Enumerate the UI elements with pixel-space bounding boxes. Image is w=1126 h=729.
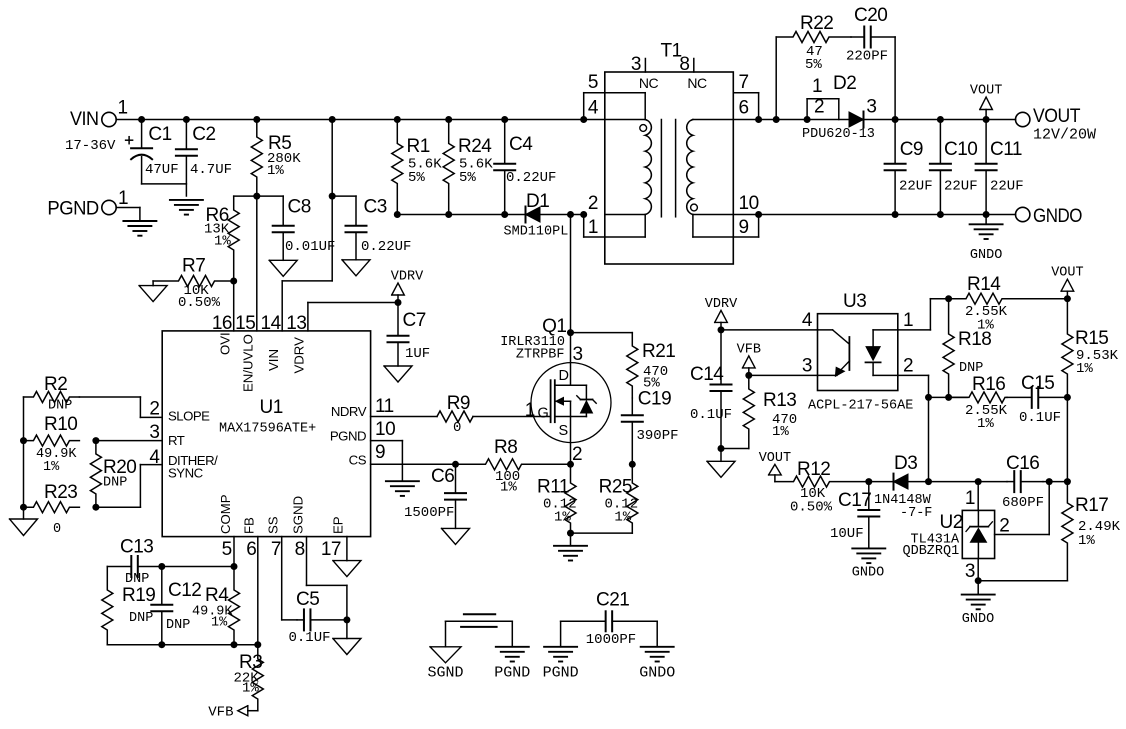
svg-text:1%: 1% — [1078, 533, 1095, 549]
wire pin9 CS — [371, 442, 485, 464]
junction VDRV C14 — [718, 326, 725, 333]
junction rail C4 — [501, 116, 508, 123]
junction R14 left — [945, 295, 952, 302]
wire pin16 OVI riser — [233, 281, 235, 331]
resistor R20 DNP — [90, 441, 136, 508]
svg-text:3: 3 — [573, 344, 583, 365]
svg-text:1%: 1% — [1076, 361, 1093, 377]
svg-text:4: 4 — [802, 310, 813, 331]
svg-text:R25: R25 — [599, 477, 632, 498]
svg-text:2: 2 — [999, 516, 1009, 537]
svg-text:1000PF: 1000PF — [586, 632, 636, 648]
svg-text:C2: C2 — [192, 124, 215, 145]
wire U2 pin2 route — [995, 482, 1050, 537]
transistor Q1 IRLR3110ZTRPBF — [500, 316, 611, 465]
wire T1 pin1 internal — [605, 215, 645, 238]
junction COMP rail — [231, 563, 238, 570]
port VFB arrow — [208, 705, 248, 721]
junction pin2 R16 rail — [925, 394, 932, 401]
wire T1 pin1 loop — [584, 215, 605, 238]
svg-text:C17: C17 — [838, 490, 871, 511]
junction bottom C4 — [501, 211, 508, 218]
junction rail R1 — [394, 116, 401, 123]
junction R7 R6 OVI node — [230, 278, 237, 285]
junction C10 top — [937, 116, 944, 123]
junction R4 bottom — [231, 641, 238, 648]
svg-text:NDRV: NDRV — [331, 404, 367, 419]
wire R22 C20 loop — [776, 37, 895, 120]
label T1 pin4 — [588, 98, 599, 119]
capacitor C5 0.1UF — [289, 589, 347, 646]
svg-text:14: 14 — [261, 313, 282, 334]
wire pin2 SLOPE — [79, 397, 162, 420]
svg-text:220PF: 220PF — [846, 49, 888, 65]
svg-text:C14: C14 — [690, 364, 724, 385]
svg-text:17-36V: 17-36V — [65, 138, 116, 154]
wire pin13 VDRV link — [308, 303, 398, 331]
svg-text:C11: C11 — [990, 139, 1022, 160]
svg-text:NC: NC — [687, 75, 707, 91]
svg-text:0: 0 — [453, 420, 461, 436]
power VDRV arrow — [391, 270, 424, 303]
svg-text:0.1UF: 0.1UF — [289, 630, 331, 646]
junction VIN rail at C1 — [138, 116, 145, 123]
junction R10 R20 — [92, 437, 99, 444]
junction C11 bottom — [983, 211, 990, 218]
wire U2 to C16 — [978, 481, 1007, 483]
wire pin7 SS riser — [282, 537, 297, 620]
junction T1 pin2 node — [580, 211, 587, 218]
capacitor C10 22UF — [930, 120, 978, 215]
svg-text:R4: R4 — [205, 585, 229, 606]
ground C6 triangle — [442, 528, 470, 544]
junction C15 right — [1064, 394, 1071, 401]
svg-text:5%: 5% — [805, 57, 822, 73]
svg-text:ACPL-217-56AE: ACPL-217-56AE — [808, 399, 913, 414]
svg-text:C5: C5 — [296, 589, 319, 610]
svg-text:C7: C7 — [403, 310, 426, 331]
svg-text:0.01UF: 0.01UF — [285, 239, 335, 255]
svg-text:0.22UF: 0.22UF — [506, 170, 556, 186]
svg-text:CS: CS — [349, 453, 367, 468]
wire T1 pin5 internal — [605, 93, 645, 120]
resistor R2 DNP — [24, 374, 80, 414]
svg-text:DNP: DNP — [166, 618, 190, 633]
svg-text:C15: C15 — [1021, 373, 1054, 394]
wire GNDO rail — [759, 214, 1016, 216]
wire pin4 DITHER — [96, 447, 162, 507]
svg-text:R7: R7 — [182, 256, 205, 277]
resistor R6 13K 1% — [204, 196, 239, 281]
junction C9 top — [892, 116, 899, 123]
svg-text:R22: R22 — [800, 13, 833, 34]
svg-text:D2: D2 — [833, 73, 856, 94]
transformer T1 primary phase dot — [640, 125, 647, 132]
junction T1 pin4 rail — [580, 116, 587, 123]
wire VDRV to U3 pin4 — [721, 310, 818, 331]
op-amp U3 ACPL-217-56AE box — [808, 291, 913, 414]
svg-text:C8: C8 — [288, 197, 311, 218]
ground left rail triangle — [10, 507, 38, 535]
wire VIN pin riser — [282, 120, 332, 331]
resistor R22 47 5% — [776, 13, 851, 73]
junction R11 bottom — [567, 530, 574, 537]
svg-text:1500PF: 1500PF — [404, 505, 454, 521]
wire pin8 SGND route — [307, 537, 347, 620]
resistor R10 49.9K 1% — [24, 414, 80, 475]
wire T1 pin7 loop — [733, 72, 758, 120]
resistor R8 100 1% — [485, 437, 522, 496]
wire Q1 drain riser — [570, 215, 572, 333]
svg-text:VOUT: VOUT — [1033, 106, 1081, 127]
svg-text:2: 2 — [588, 193, 598, 214]
svg-text:D3: D3 — [894, 453, 917, 474]
capacitor C9 22UF — [885, 120, 933, 215]
svg-text:SGND: SGND — [290, 496, 305, 534]
svg-text:3: 3 — [149, 422, 159, 443]
svg-text:VOUT: VOUT — [759, 451, 791, 466]
svg-text:1UF: 1UF — [405, 346, 430, 362]
label U1 pin names right — [330, 404, 367, 468]
wire T1 pin10 loop — [733, 215, 758, 238]
svg-text:0.50%: 0.50% — [790, 500, 833, 516]
svg-text:VFB: VFB — [737, 342, 761, 357]
diode D3 1N4148W — [874, 453, 932, 521]
wire D2 pin12 loop — [807, 73, 856, 120]
resistor R13 470 1% — [743, 375, 797, 448]
svg-text:S: S — [559, 423, 568, 439]
svg-text:R11: R11 — [537, 477, 569, 498]
svg-text:1: 1 — [965, 488, 975, 509]
svg-text:PGND: PGND — [47, 199, 98, 220]
ground C14 triangle — [707, 449, 735, 478]
svg-text:R18: R18 — [958, 329, 991, 350]
wire pin5 COMP riser — [233, 537, 235, 567]
resistor R16 2.55K 1% — [949, 374, 1008, 432]
junction C5 right node — [343, 616, 350, 623]
svg-text:10: 10 — [375, 419, 395, 440]
svg-text:6: 6 — [246, 539, 256, 560]
ground U2 GNDO earth — [962, 581, 995, 627]
power VOUT arrow R14 — [1051, 266, 1083, 299]
transistor U2 TL431A QDBZRQ1 — [903, 510, 995, 558]
label U1 pin names bottom — [218, 494, 346, 534]
svg-text:1%: 1% — [211, 616, 228, 631]
svg-text:2: 2 — [572, 444, 582, 465]
junction VIN rail at C2 — [183, 116, 190, 123]
svg-text:1: 1 — [903, 310, 913, 331]
capacitor C11 22UF — [976, 120, 1024, 215]
svg-text:8: 8 — [679, 54, 689, 75]
resistor R5 280K 1% — [251, 120, 301, 197]
wire compensation bottom rail — [107, 644, 257, 646]
svg-text:R14: R14 — [967, 274, 1001, 295]
label U1 bottom pin numbers — [222, 539, 341, 560]
svg-text:5%: 5% — [459, 170, 476, 186]
wire T1 pin5 loop — [584, 72, 605, 120]
svg-text:C10: C10 — [944, 139, 977, 160]
junction T1 pin10 rail — [755, 211, 762, 218]
wire D3 to U2 — [908, 481, 978, 483]
capacitor C2 4.7UF — [176, 120, 232, 197]
svg-text:1: 1 — [118, 98, 128, 119]
svg-text:R1: R1 — [407, 136, 430, 157]
svg-text:DNP: DNP — [48, 399, 72, 414]
svg-text:1%: 1% — [214, 234, 231, 250]
power VDRV arrow right — [705, 297, 738, 330]
svg-text:C4: C4 — [509, 134, 533, 155]
transformer T1 core — [661, 120, 675, 217]
svg-text:R10: R10 — [44, 414, 77, 435]
resistor R15 9.53K 1% — [1062, 299, 1119, 398]
svg-text:5%: 5% — [408, 170, 425, 186]
svg-text:13: 13 — [286, 313, 306, 334]
svg-text:47UF: 47UF — [145, 162, 179, 178]
svg-text:EP: EP — [331, 516, 346, 534]
svg-text:R12: R12 — [797, 459, 830, 480]
svg-text:NC: NC — [639, 75, 659, 91]
svg-text:4.7UF: 4.7UF — [190, 162, 232, 178]
junction D2 anode loop — [804, 116, 811, 123]
wire R16 rail — [929, 396, 968, 398]
junction R5 bottom node — [253, 193, 260, 200]
svg-text:COMP: COMP — [218, 494, 233, 534]
svg-text:3: 3 — [866, 97, 876, 118]
svg-text:C13: C13 — [120, 537, 153, 558]
svg-text:390PF: 390PF — [637, 428, 679, 444]
capacitor C4 0.22UF — [494, 120, 556, 215]
wire R15 C15 riser — [1066, 397, 1068, 481]
capacitor C21 1000PF — [561, 590, 658, 649]
junction R17 top — [1064, 478, 1071, 485]
svg-text:GNDO: GNDO — [962, 612, 994, 627]
resistor R12 10K 0.50% — [775, 459, 869, 516]
junction VIN rail at R5 — [253, 116, 260, 123]
svg-text:3: 3 — [631, 54, 641, 75]
wire C3 branch — [332, 195, 356, 197]
svg-text:QDBZRQ1: QDBZRQ1 — [903, 544, 960, 559]
resistor R4 49.9K 1% — [192, 567, 240, 645]
junction C12 bottom — [158, 641, 165, 648]
capacitor C6 1500PF — [404, 464, 466, 528]
label T1 pin2 pin1 — [588, 193, 598, 238]
svg-text:DNP: DNP — [129, 611, 153, 626]
svg-text:22UF: 22UF — [944, 178, 978, 194]
capacitor C13 DNP — [107, 537, 162, 588]
svg-text:1: 1 — [588, 217, 598, 238]
svg-text:R9: R9 — [447, 393, 470, 414]
capacitor C15 0.1UF — [1007, 373, 1067, 426]
wire C17 to D3 — [869, 481, 894, 483]
junction left rail R10 — [20, 437, 27, 444]
svg-text:D: D — [559, 368, 569, 384]
transformer T1 pin8 NC — [679, 54, 707, 91]
svg-text:PGND: PGND — [330, 429, 366, 444]
svg-text:9: 9 — [375, 442, 385, 463]
resistor R9 0 — [437, 393, 473, 436]
junction C3 branch — [329, 193, 336, 200]
svg-text:0.50%: 0.50% — [178, 295, 221, 311]
svg-text:SMD110PL: SMD110PL — [504, 225, 569, 240]
svg-text:1%: 1% — [554, 510, 571, 526]
wire VFB to U3 pin3 — [749, 356, 818, 377]
wire Q1 to R21 top — [571, 332, 633, 334]
svg-text:SS: SS — [266, 516, 281, 534]
junction C17 top — [865, 478, 872, 485]
ground PGND earth tie — [494, 647, 530, 682]
svg-text:U1: U1 — [260, 397, 283, 418]
junction C6 node — [452, 461, 459, 468]
ground GNDO output earth — [970, 215, 1003, 264]
resistor R21 470 5% — [627, 333, 676, 398]
wire R5 bottom node — [234, 195, 284, 197]
junction C14 bottom — [718, 445, 725, 452]
svg-text:VOUT: VOUT — [1051, 266, 1083, 281]
junction bottom R24 — [445, 211, 452, 218]
diode D1 SMD110PL — [504, 191, 569, 240]
svg-text:11: 11 — [375, 396, 394, 417]
svg-text:GNDO: GNDO — [1033, 206, 1082, 227]
svg-text:FB: FB — [242, 517, 257, 534]
svg-text:MAX17596ATE+: MAX17596ATE+ — [219, 422, 316, 437]
svg-text:9: 9 — [739, 217, 749, 238]
wire VOUT rail — [759, 119, 1016, 121]
ground C17 GNDO earth — [852, 548, 886, 580]
svg-text:R19: R19 — [122, 585, 155, 606]
wire pin3 RT — [96, 422, 162, 443]
wire pin15 EN riser — [256, 196, 258, 331]
svg-text:1%: 1% — [43, 460, 60, 475]
junction left rail R23 — [20, 504, 27, 511]
junction C19 bottom node — [629, 461, 636, 468]
svg-text:R17: R17 — [1075, 495, 1108, 516]
svg-text:VDRV: VDRV — [391, 270, 424, 285]
port VIN terminal 1 — [65, 98, 139, 154]
svg-text:C20: C20 — [854, 5, 887, 26]
capacitor C16 680PF — [1002, 453, 1044, 511]
junction VDRV C7 node — [395, 299, 402, 306]
svg-text:-7-F: -7-F — [900, 506, 932, 521]
wire R8 to source — [522, 463, 571, 465]
svg-text:4: 4 — [149, 447, 160, 468]
svg-text:1%: 1% — [614, 510, 631, 526]
diode D2 PDU620-13 — [802, 97, 876, 143]
svg-text:R24: R24 — [458, 136, 492, 157]
svg-text:C3: C3 — [364, 197, 387, 218]
svg-text:C1: C1 — [148, 124, 171, 145]
svg-text:22UF: 22UF — [990, 178, 1024, 194]
label U1 top pin numbers — [212, 313, 307, 334]
svg-text:VIN: VIN — [70, 109, 99, 130]
svg-text:1%: 1% — [500, 480, 517, 496]
resistor R11 0.12 1% — [537, 464, 577, 533]
ground SGND triangle — [427, 647, 463, 682]
wire snubber bottom rail — [397, 214, 583, 216]
svg-text:VFB: VFB — [208, 705, 233, 721]
svg-text:1: 1 — [118, 188, 128, 209]
svg-text:VDRV: VDRV — [292, 337, 307, 374]
wire pin10 PGND — [371, 419, 403, 481]
svg-text:G: G — [538, 406, 549, 422]
junction R18 bottom — [945, 394, 952, 401]
wire T1 pin10 out — [733, 193, 758, 238]
svg-text:3: 3 — [965, 561, 975, 582]
svg-text:R15: R15 — [1075, 328, 1108, 349]
svg-text:5: 5 — [222, 539, 232, 560]
svg-text:0.1UF: 0.1UF — [690, 407, 732, 423]
svg-text:1%: 1% — [242, 681, 259, 697]
svg-text:0.1UF: 0.1UF — [1019, 410, 1061, 426]
capacitor C17 10UF — [830, 482, 879, 549]
junction R22 branch — [773, 116, 780, 123]
junction VFB R13 — [745, 372, 752, 379]
svg-text:ZTRPBF: ZTRPBF — [516, 348, 565, 363]
svg-text:2: 2 — [903, 356, 913, 377]
svg-text:1: 1 — [525, 400, 535, 421]
capacitor C8 0.01UF — [273, 196, 336, 260]
junction C11 top — [983, 116, 990, 123]
wire pin17 EP stub — [346, 537, 348, 561]
svg-text:EN/UVLO: EN/UVLO — [241, 334, 256, 392]
ground C7 triangle — [384, 366, 412, 382]
svg-text:SYNC: SYNC — [168, 465, 204, 480]
svg-text:PDU620-13: PDU620-13 — [802, 127, 875, 142]
svg-text:DNP: DNP — [103, 476, 127, 491]
port GNDO terminal — [1016, 206, 1083, 227]
wire left rail — [23, 397, 25, 507]
svg-text:0.22UF: 0.22UF — [361, 239, 411, 255]
capacitor C7 1UF — [388, 303, 431, 367]
wire PGND stub — [139, 208, 141, 222]
junction U2 pin1 node — [975, 478, 982, 485]
wire C1 to C2 bottom — [142, 183, 187, 185]
resistor R19 DNP — [102, 567, 156, 645]
svg-text:15: 15 — [235, 313, 255, 334]
svg-text:R13: R13 — [763, 390, 796, 411]
ground R11 earth — [554, 533, 587, 560]
ground PGND input earth — [123, 221, 156, 236]
svg-text:22UF: 22UF — [899, 178, 933, 194]
capacitor C3 0.22UF — [346, 196, 412, 260]
svg-text:GNDO: GNDO — [970, 248, 1002, 263]
transformer T1 box — [605, 41, 734, 265]
resistor R23 0 — [24, 482, 80, 537]
svg-text:VDRV: VDRV — [705, 297, 738, 312]
transistor U3 phototransistor — [818, 330, 850, 376]
svg-text:R23: R23 — [44, 482, 77, 503]
junction C9 bottom — [892, 211, 899, 218]
svg-text:3: 3 — [802, 356, 812, 377]
wire VIN rail — [139, 119, 605, 121]
svg-text:1%: 1% — [772, 424, 789, 440]
svg-text:10UF: 10UF — [830, 526, 864, 542]
transformer T1 pin3 NC — [631, 54, 659, 91]
junction R23 R20 — [92, 504, 99, 511]
label U1 pin names top — [218, 332, 307, 392]
junction U2 pin3 node — [975, 577, 982, 584]
svg-text:C19: C19 — [638, 389, 671, 410]
resistor R24 5.6K 5% — [443, 120, 493, 215]
capacitor C1 47UF — [126, 120, 179, 184]
svg-text:R2: R2 — [44, 374, 67, 395]
wire U2 pin1 riser — [965, 482, 978, 511]
svg-text:Q1: Q1 — [542, 316, 566, 337]
ground C5 triangle — [333, 620, 361, 655]
wire U3 pin2 out — [898, 356, 929, 482]
ground PGND pin10 earth — [386, 481, 419, 496]
wire C13 to COMP — [162, 566, 234, 568]
ground C8 triangle — [269, 260, 297, 276]
